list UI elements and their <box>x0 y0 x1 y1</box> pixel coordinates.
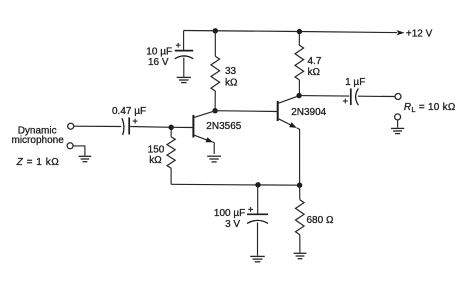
svg-text:16 V: 16 V <box>148 57 169 68</box>
label 33 kOhm <box>225 66 238 89</box>
wire base node to R 150k <box>170 127 172 136</box>
svg-text:+12 V: +12 V <box>406 28 433 39</box>
capacitor 0.47 uF <box>122 117 129 134</box>
svg-text:microphone: microphone <box>12 135 65 146</box>
wire output ground terminal to ground <box>397 120 399 128</box>
wire bottom rail to C 100uF <box>257 185 259 214</box>
node Q1 collector <box>212 108 217 113</box>
wire from top rail to C 10uF <box>183 31 185 51</box>
label RL = 10 kOhm <box>404 102 456 114</box>
svg-text:10 µF: 10 µF <box>146 46 172 57</box>
label Z = 1 kOhm <box>16 157 60 168</box>
polarity + of C 10uF <box>176 43 181 48</box>
svg-text:2N3904: 2N3904 <box>291 107 326 118</box>
svg-text:kΩ: kΩ <box>225 77 238 88</box>
label 2N3904 <box>291 107 326 118</box>
svg-text:33: 33 <box>225 66 237 77</box>
wire Q1 emitter to ground <box>213 142 215 154</box>
ground below C 10uF <box>177 77 191 82</box>
ground input return <box>79 156 92 161</box>
svg-text:RL = 10 kΩ: RL = 10 kΩ <box>404 102 456 114</box>
resistor 680 Ohm <box>296 200 305 235</box>
capacitor 10 uF 16 V <box>175 51 193 59</box>
arrowhead +12 V supply <box>396 30 404 35</box>
ground below C 100uF <box>250 256 265 261</box>
svg-text:kΩ: kΩ <box>308 67 321 78</box>
ground Q1 emitter <box>207 156 221 162</box>
polarity + of C 1uF <box>343 99 348 104</box>
terminal input top (open circle) <box>68 123 74 129</box>
terminal output (open circle) <box>395 94 401 100</box>
svg-text:4.7: 4.7 <box>308 56 322 67</box>
node top rail / R 4.7k junction <box>297 29 302 34</box>
resistor 4.7 kOhm <box>295 45 304 80</box>
wire C 1uF to output terminal <box>358 95 395 97</box>
terminal output ground (open circle) <box>395 114 401 120</box>
resistor 33 kOhm <box>211 56 220 91</box>
wire C 10uF to ground <box>183 58 185 77</box>
wire top rail to R 4.7k <box>298 32 300 45</box>
node top rail / R 33k junction <box>213 28 218 33</box>
wire top rail to R 33k <box>214 31 216 56</box>
svg-text:680 Ω: 680 Ω <box>307 215 334 226</box>
label 0.47 uF <box>112 106 146 117</box>
wire bottom rail to R 680 <box>299 185 301 200</box>
wire R 4.7k to Q2 collector <box>298 80 300 96</box>
label 150 kOhm <box>148 145 165 166</box>
transistor Q1 2N3565 <box>171 111 215 142</box>
capacitor 100 uF 3 V <box>247 214 268 223</box>
node Q2 collector <box>296 93 301 98</box>
ground below R 680 <box>294 253 307 258</box>
wire top supply rail <box>184 31 398 33</box>
label 2N3565 <box>206 121 241 132</box>
label 10 uF 16 V <box>146 46 172 68</box>
wire R 680 to ground <box>299 235 301 253</box>
node bottom rail / C 100uF junction <box>255 182 260 187</box>
svg-text:100 µF: 100 µF <box>214 208 245 219</box>
wire C 0.47uF to base node <box>130 126 171 129</box>
svg-text:Z = 1 kΩ: Z = 1 kΩ <box>16 157 60 168</box>
wire bottom feedback rail <box>171 183 300 186</box>
wire Q2 collector to C 1uF <box>299 95 349 98</box>
polarity + of C 0.47uF <box>133 119 138 124</box>
wire Q1 collector to Q2 base <box>215 110 277 113</box>
svg-text:3 V: 3 V <box>225 219 240 230</box>
wire C 100uF to ground <box>257 222 259 255</box>
label 1 uF <box>345 77 365 88</box>
resistor 150 kOhm <box>167 137 175 169</box>
transistor Q2 2N3904 <box>278 96 300 186</box>
svg-text:1 µF: 1 µF <box>345 77 365 88</box>
node Q1 base / R 150k junction <box>169 125 174 130</box>
label Dynamic microphone <box>12 126 65 147</box>
wire R 150k to bottom rail <box>170 168 172 184</box>
svg-text:0.47 µF: 0.47 µF <box>112 106 146 117</box>
capacitor 1 uF <box>351 89 359 106</box>
node bottom rail / R 680 / Q2 emitter junction <box>297 183 302 188</box>
wire R 33k to Q1 collector <box>214 91 216 111</box>
ground output return <box>391 128 404 133</box>
label 4.7 kOhm <box>308 56 322 78</box>
wire input bottom terminal to ground <box>73 146 85 156</box>
label +12 V <box>406 28 433 39</box>
label 100 uF 3 V <box>214 208 245 230</box>
svg-text:kΩ: kΩ <box>149 155 162 166</box>
polarity + of C 100uF <box>248 207 253 212</box>
terminal input bottom (open circle) <box>67 143 73 149</box>
svg-text:2N3565: 2N3565 <box>206 121 241 132</box>
label 680 Ohm <box>307 215 334 226</box>
wire input terminal to C 0.47uF <box>74 125 121 127</box>
